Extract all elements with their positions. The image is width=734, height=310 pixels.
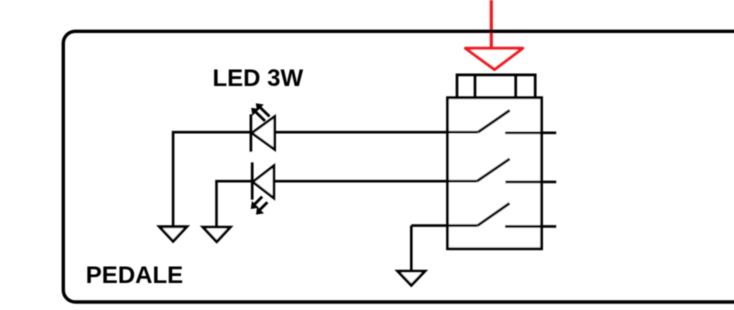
wire row3 from ground to pole 3 bbox=[411, 224, 477, 227]
switch throw 1 stub bbox=[505, 132, 556, 135]
ground G3 bbox=[398, 271, 425, 285]
switch throw 2 stub bbox=[505, 181, 556, 184]
LED D2 triangle bbox=[253, 166, 274, 198]
switch throw 3 stub bbox=[505, 225, 556, 228]
switch pole 2 blade bbox=[477, 159, 510, 181]
LED D2 emission arrow a bbox=[251, 197, 262, 209]
switch pole 3 blade bbox=[478, 203, 510, 225]
input arrow (red) head bbox=[466, 48, 523, 69]
LED D1 emission arrow b bbox=[251, 108, 265, 121]
enclosure PEDALE box bbox=[63, 31, 734, 302]
footswitch SW1 lugs bbox=[457, 75, 535, 98]
wire LED1 cathode to ground bbox=[173, 132, 251, 226]
switch pole 1 blade bbox=[478, 110, 510, 132]
svg-text:LED 3W: LED 3W bbox=[213, 65, 304, 92]
wire row1 from LED1 anode to pole 1 bbox=[275, 131, 479, 134]
ground G1 bbox=[159, 227, 186, 242]
LED D2 cathode bar bbox=[251, 162, 254, 199]
LED D2 emission arrow b bbox=[256, 202, 267, 214]
wire row3 down to ground bbox=[410, 226, 413, 271]
input arrow (red) stem bbox=[490, 0, 493, 50]
LED D1 emission arrow a bbox=[256, 103, 270, 116]
ground G2 bbox=[203, 227, 230, 242]
svg-text:PEDALE: PEDALE bbox=[86, 262, 183, 289]
wire LED2 cathode to ground bbox=[217, 181, 253, 227]
wire row2 from LED2 anode to pole 2 bbox=[274, 180, 477, 183]
footswitch SW1 body bbox=[448, 98, 542, 249]
LED D1 triangle bbox=[252, 117, 275, 150]
LED D1 cathode bar bbox=[250, 114, 253, 151]
